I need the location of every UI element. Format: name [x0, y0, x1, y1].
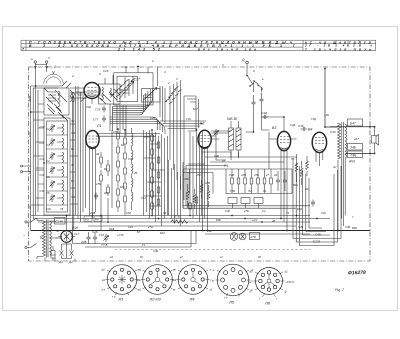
coil column L4 [132, 128, 134, 210]
svg-text:В04: В04 [293, 183, 298, 187]
trimmer C19 [103, 234, 108, 242]
ground terminal [46, 61, 48, 72]
tube V4 [312, 132, 326, 166]
svg-text:2: 2 [167, 81, 170, 85]
svg-text:м: м [212, 280, 214, 283]
label B22B [313, 240, 320, 244]
resistor R21 horizontal zigzag [171, 215, 188, 224]
svg-text:+С7б: +С7б [117, 233, 124, 237]
tube V1a converter [81, 83, 102, 105]
resistor R3 [107, 160, 110, 176]
svg-text:~: ~ [23, 234, 25, 238]
resistor R12 zigzag [300, 161, 303, 185]
figure caption [335, 288, 345, 292]
svg-text:С27: С27 [134, 78, 140, 82]
socket V1 name [118, 297, 124, 302]
svg-text:47Б: 47Б [113, 130, 118, 134]
svg-text:Т1: Т1 [286, 211, 290, 215]
tube socket V1 [106, 265, 139, 295]
svg-text:Б47: Б47 [350, 121, 356, 125]
resistor R1 [100, 152, 103, 168]
resistor R6 zigzag [193, 189, 196, 209]
label C77 [95, 108, 101, 112]
trimmer C10 [213, 129, 218, 137]
svg-text:Б7: Б7 [137, 230, 141, 234]
svg-text:Л5: Л5 [228, 300, 235, 305]
resistor column D [157, 142, 160, 205]
svg-text:С1Б: С1Б [86, 105, 91, 109]
svg-text:2МБ: 2МБ [80, 240, 87, 244]
svg-text:П7Б: П7Б [174, 215, 180, 219]
trimmer C4 [49, 152, 54, 160]
svg-text:С77: С77 [93, 118, 99, 122]
title block frame [21, 40, 376, 50]
band switch S2 [246, 75, 263, 92]
wire V2 connections [188, 131, 297, 231]
output transformer T2 primary [338, 122, 344, 160]
svg-text:Б00: Б00 [120, 185, 125, 189]
svg-text:м1: м1 [102, 278, 106, 282]
svg-text:Б17: Б17 [193, 107, 198, 111]
svg-text:Д: Д [241, 58, 245, 62]
svg-text:С28: С28 [40, 173, 45, 177]
svg-text:м: м [173, 269, 175, 272]
svg-text:а2: а2 [285, 270, 288, 274]
svg-text:Б0: Б0 [305, 187, 309, 191]
svg-text:С12: С12 [141, 196, 146, 200]
svg-text:С24: С24 [40, 141, 45, 145]
wire IF horizontals [160, 96, 206, 131]
svg-text:27Б: 27Б [95, 182, 101, 186]
svg-text:б: б [253, 69, 255, 73]
wire converter links [70, 86, 113, 131]
svg-text:27Б: 27Б [250, 235, 256, 239]
capacitor C16 [283, 171, 287, 191]
wire speaker feed bottom [345, 153, 375, 155]
svg-text:д5: д5 [258, 255, 261, 259]
svg-text:Д2: Д2 [68, 260, 73, 264]
wire V3 connections [262, 117, 297, 231]
svg-text:2Г · 2Б · 4Б: 2Г · 2Б · 4Б [304, 43, 350, 47]
trimmer C3 [49, 138, 54, 146]
resistor R22 [51, 246, 55, 261]
svg-text:АЧЗ: АЧЗ [348, 160, 355, 164]
coil box ties [47, 135, 68, 205]
svg-text:Б1: Б1 [71, 147, 75, 151]
resistor R7 zigzag [200, 180, 203, 198]
svg-text:а: а [31, 57, 33, 61]
svg-text:м: м [249, 281, 251, 284]
svg-text:С22: С22 [321, 211, 326, 215]
svg-text:С17: С17 [74, 232, 79, 236]
svg-text:ЗБ: ЗБ [163, 211, 167, 215]
socket V5 pin labels [212, 268, 254, 300]
svg-text:43Б: 43Б [184, 177, 189, 181]
svg-text:г1: г1 [220, 255, 223, 259]
capacitor C14 [311, 200, 315, 207]
svg-text:Б1: Б1 [28, 170, 32, 174]
resistor R13 zigzag [306, 156, 309, 176]
svg-text:С5: С5 [46, 175, 50, 179]
svg-text:П9: П9 [197, 173, 201, 177]
capacitor C77 [102, 106, 106, 113]
label C27 [134, 78, 140, 82]
label V3 [272, 126, 276, 130]
wire coil connections [33, 128, 62, 198]
resistor R24 [195, 197, 198, 203]
svg-text:Л6: Л6 [264, 301, 271, 306]
bus wire rect1 [73, 231, 197, 244]
svg-text:м1: м1 [173, 278, 177, 282]
resistor R11 zigzag [295, 154, 298, 182]
trimmer C2 [49, 124, 54, 132]
svg-text:3: 3 [48, 56, 50, 60]
label C12 [298, 124, 304, 128]
svg-text:С4Д: С4Д [290, 123, 295, 127]
svg-text:2Б: 2Б [133, 171, 137, 175]
resistor R2 [100, 170, 103, 186]
mains terminal upper [25, 218, 37, 223]
resistor R4 [107, 184, 110, 196]
trimmer C5 [49, 166, 54, 174]
svg-text:Л2Б: Л2Б [297, 225, 303, 229]
box 27B [228, 198, 263, 209]
resistor column B [124, 130, 127, 216]
socket V2-V3 pin labels [137, 269, 177, 292]
svg-text:Б0Б: Б0Б [216, 218, 221, 222]
resistor column C [151, 130, 154, 214]
chassis inner dashed line [115, 249, 310, 251]
resistor R15 [237, 169, 240, 193]
svg-text:4: 4 [222, 63, 224, 67]
svg-text:С30: С30 [128, 157, 133, 161]
svg-text:С1: С1 [263, 189, 267, 193]
svg-text:м: м [213, 269, 215, 272]
svg-text:В 3: В 3 [29, 44, 45, 48]
svg-text:СЗ2: СЗ2 [46, 207, 51, 211]
svg-text:Ф16278: Ф16278 [348, 270, 366, 277]
CHASSIS [29, 67, 371, 261]
svg-text:С4Б: С4Б [315, 233, 321, 237]
svg-text:э1: э1 [139, 288, 142, 292]
socket V6 name [264, 301, 271, 306]
svg-text:300: 300 [104, 191, 109, 195]
svg-text:Б7: Б7 [71, 179, 75, 183]
resistor R17 [250, 169, 253, 193]
svg-text:С7б: С7б [95, 108, 101, 112]
svg-text:П2Б: П2Б [229, 173, 234, 177]
wire mixer drops [90, 130, 113, 231]
resistor R19 [263, 169, 266, 193]
svg-text:м1: м1 [250, 270, 254, 274]
svg-text:б2: б2 [140, 255, 143, 259]
box C14B [55, 218, 66, 225]
tube V2 [198, 130, 211, 164]
svg-text:С2б: С2б [40, 157, 45, 161]
svg-text:АЧ: АЧ [332, 165, 337, 169]
label R9 R10 [227, 117, 237, 121]
antenna terminal [34, 61, 36, 86]
wire antenna top [35, 64, 46, 66]
svg-text:С4Д: С4Д [261, 111, 268, 115]
svg-text:С14Б: С14Б [56, 220, 64, 224]
svg-text:7: 7 [352, 215, 354, 219]
svg-text:Б22Б: Б22Б [313, 240, 320, 244]
svg-text:З00: З00 [71, 131, 76, 135]
svg-text:47: 47 [28, 206, 32, 209]
resistor R10 hatched [236, 121, 241, 158]
label V1 [96, 124, 101, 128]
bus wire rect2 [85, 231, 191, 248]
component value labels middle [150, 77, 277, 233]
resistor column A [117, 129, 120, 212]
svg-text:П1Б: П1Б [109, 227, 114, 231]
label C4B [315, 233, 321, 237]
svg-text:В1б: В1б [72, 226, 78, 230]
svg-text:к у: к у [112, 296, 116, 299]
resistor R20 [270, 169, 273, 193]
svg-text:1Б: 1Б [274, 173, 277, 177]
svg-text:м1: м1 [137, 278, 141, 282]
antenna coil L1 [44, 88, 74, 115]
svg-text:э2: э2 [210, 288, 213, 292]
title block row line 2 [21, 46, 303, 48]
svg-text:+2Б: +2Б [324, 113, 329, 117]
svg-text:Л1: Л1 [118, 297, 124, 302]
svg-text:С15: С15 [128, 225, 133, 229]
loop antenna W1 [44, 71, 64, 84]
power transformer T1 secondary [50, 221, 58, 255]
rectifier tube V5 [58, 224, 75, 252]
svg-text:Б2: Б2 [104, 167, 108, 171]
tube socket V6 [254, 268, 285, 298]
svg-text:Г Г: Г Г [224, 296, 228, 300]
svg-text:+160 б: +160 б [286, 280, 295, 284]
socket V2-V3 name [149, 297, 162, 302]
svg-text:С2Б: С2Б [40, 125, 45, 129]
svg-text:Л2: Л2 [70, 119, 75, 123]
title block row line 1 [21, 43, 376, 45]
svg-text:С6: С6 [46, 191, 50, 195]
svg-text:РЗ: РЗ [85, 217, 89, 221]
tube socket V2-V3 [141, 265, 174, 295]
svg-text:Б4Б: Б4Б [297, 207, 302, 211]
diode D2 [68, 248, 74, 264]
wire PSU links [45, 216, 75, 262]
svg-text:1: 1 [54, 65, 56, 69]
socket V4 name [189, 297, 196, 302]
svg-text:С4Б: С4Б [153, 249, 158, 253]
label V4 [308, 128, 312, 132]
socket V6 pin labels [249, 270, 294, 302]
resistor R9 hatched [229, 121, 234, 160]
svg-text:4Т: 4Т [222, 159, 225, 163]
socket V5 name [228, 300, 235, 305]
svg-text:С2б: С2б [103, 69, 109, 73]
svg-text:Т2Б: Т2Б [230, 189, 235, 193]
wire IF drop bundle [170, 96, 184, 200]
bus wire ground [31, 230, 370, 232]
capacitor C7 [94, 193, 98, 200]
wire feedback nest [293, 160, 341, 246]
svg-text:м2: м2 [102, 268, 106, 272]
svg-text:с: с [252, 280, 254, 283]
svg-text:С25: С25 [150, 116, 155, 120]
tube socket V4 [177, 265, 210, 295]
output transformer T2 secondary [345, 124, 347, 158]
svg-text:С40: С40 [298, 124, 304, 128]
wire middle verticals [144, 130, 168, 226]
svg-text:З4Б: З4Б [350, 146, 356, 150]
capacitor C18 [93, 232, 97, 244]
wire fan corner [112, 89, 153, 115]
svg-text:f: f [276, 297, 277, 301]
svg-text:Б0: Б0 [121, 143, 125, 147]
svg-text:а: а [210, 269, 212, 272]
svg-text:а4: а4 [110, 255, 113, 259]
svg-text:47Д: 47Д [126, 211, 131, 215]
svg-text:ЗБ: ЗБ [291, 157, 295, 161]
tube socket V5 [215, 264, 250, 296]
svg-text:300Б: 300Б [28, 96, 32, 102]
title block column dividers [26, 40, 359, 50]
resistor R18 [257, 169, 260, 193]
coil L2 [62, 124, 64, 205]
wire left bus [31, 86, 62, 231]
svg-text:З: З [99, 72, 101, 76]
detector block frame [224, 164, 292, 194]
svg-text:Л4: Л4 [59, 207, 64, 211]
svg-text:4Б: 4Б [272, 219, 275, 223]
svg-text:С1б: С1б [99, 233, 104, 237]
svg-text:Л1: Л1 [96, 124, 101, 128]
svg-text:С22: С22 [28, 132, 32, 137]
variable capacitor C1b [144, 88, 158, 101]
svg-text:3: 3 [176, 77, 178, 81]
wire right verticals [169, 130, 203, 231]
power transformer T1 core [47, 220, 49, 258]
SOCKETS [102, 264, 295, 305]
svg-text:м: м [138, 269, 140, 272]
svg-text:Б22: Б22 [160, 231, 165, 235]
svg-text:С4: С4 [262, 209, 266, 213]
svg-text:С4Б: С4Б [345, 225, 350, 229]
svg-text:С4: С4 [46, 159, 50, 163]
trimmer C6 [49, 180, 54, 188]
bus wire heater [33, 218, 330, 220]
resistor R23 [189, 203, 192, 209]
dial lamp L2 [239, 233, 246, 240]
svg-text:Зб: Зб [56, 229, 60, 233]
label T1 [40, 236, 44, 240]
label C11 [261, 111, 268, 115]
svg-text:С4Б: С4Б [214, 154, 219, 158]
svg-text:Р9: Р9 [224, 164, 228, 168]
socket V1 pin labels [102, 268, 142, 299]
svg-text:2: 2 [71, 74, 74, 78]
power transformer T1 primary [37, 218, 46, 259]
diode D1 [58, 248, 64, 264]
switch wafer contacts S0 [112, 76, 134, 98]
label mains [23, 234, 25, 238]
label R5tag [84, 216, 102, 222]
phono input terminals [21, 165, 31, 173]
capacitor C15 [276, 171, 280, 191]
tuning gang frame [114, 73, 160, 105]
capacitor C8 [252, 95, 256, 111]
wire speaker feed top [330, 126, 375, 128]
wire fan lower [110, 117, 165, 134]
dial lamp L1 [230, 233, 238, 241]
svg-text:Р4: Р4 [95, 217, 99, 221]
svg-text:47Б: 47Б [254, 173, 259, 177]
svg-text:Л4: Л4 [189, 297, 196, 302]
NOTES [335, 270, 366, 292]
component value labels buses [89, 211, 357, 259]
svg-text:Т1: Т1 [142, 243, 146, 247]
capacitor C9 [260, 93, 264, 108]
svg-text:В3: В3 [272, 126, 276, 130]
capacitor C11 [262, 115, 269, 119]
svg-text:Л2-Л3: Л2-Л3 [149, 297, 162, 302]
tube V3 [277, 131, 290, 166]
svg-text:в7: в7 [180, 255, 183, 259]
svg-text:в: в [262, 77, 264, 81]
svg-text:4ЛБ: 4ЛБ [205, 181, 210, 185]
svg-text:С30: С30 [40, 189, 45, 193]
component value labels right [290, 113, 359, 229]
resistor R8 zigzag [207, 185, 210, 207]
bus wire AVC [38, 221, 310, 223]
chassis boundary dashed box [29, 67, 371, 261]
svg-text:С16: С16 [92, 230, 98, 234]
svg-text:С40: С40 [207, 229, 212, 233]
oscillator coil L3 [99, 75, 126, 104]
label C13 [330, 130, 336, 134]
wire bus 2 [76, 92, 105, 222]
wire switch drops [246, 108, 270, 132]
component value labels left [28, 96, 146, 209]
label winding 2 box [348, 151, 363, 158]
svg-text:В4: В4 [308, 128, 312, 132]
capacitor C78 [102, 116, 106, 123]
bus wire B+ [31, 215, 310, 217]
svg-text:В2Б: В2Б [352, 226, 357, 230]
svg-text:ф: ф [251, 288, 254, 292]
svg-text:В2: В2 [200, 122, 204, 126]
drawing number [348, 270, 366, 277]
svg-text:в д: в д [102, 288, 106, 292]
coil shield box [44, 118, 70, 215]
resistor R14 [231, 169, 234, 193]
svg-text:54Б 5Б: 54Б 5Б [227, 117, 237, 121]
svg-text:Т1Д: Т1Д [311, 117, 316, 121]
svg-text:+С4: +С4 [252, 218, 257, 222]
resistor R5 zigzag [186, 184, 189, 208]
svg-text:2МБ: 2МБ [89, 211, 96, 215]
wire IF link horizontals [96, 134, 160, 137]
svg-text:Зб: Зб [40, 236, 44, 240]
bus wire screen [88, 225, 296, 227]
wire plate feed [324, 68, 337, 127]
socket V4 pin labels [173, 269, 213, 292]
svg-text:27: 27 [265, 173, 269, 177]
svg-text:ф: ф [285, 290, 288, 294]
component value labels top [31, 56, 264, 81]
box 27B2 [250, 233, 260, 240]
node 1 label [54, 65, 56, 69]
svg-text:4Б: 4Б [96, 152, 99, 156]
